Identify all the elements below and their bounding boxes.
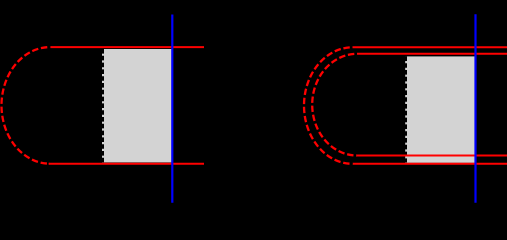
right diagram inner dashed red arc — [312, 54, 357, 156]
right diagram outer dashed red arc — [304, 47, 353, 164]
right diagram inner top red line — [357, 53, 507, 55]
right diagram outer bottom red line — [353, 163, 507, 165]
right diagram inner bottom red line — [357, 155, 507, 157]
left diagram bottom red line — [49, 163, 204, 165]
right diagram black dashed boundary — [405, 56, 407, 162]
left diagram shaded region — [102, 49, 172, 162]
left diagram dashed red arc — [1, 47, 50, 164]
left diagram top red line — [50, 46, 204, 48]
right diagram outer top red line — [353, 46, 507, 48]
left diagram blue vertical line — [171, 15, 173, 203]
left diagram black dashed boundary — [102, 49, 104, 162]
right diagram shaded region — [405, 56, 475, 162]
right diagram blue vertical line — [474, 14, 476, 202]
